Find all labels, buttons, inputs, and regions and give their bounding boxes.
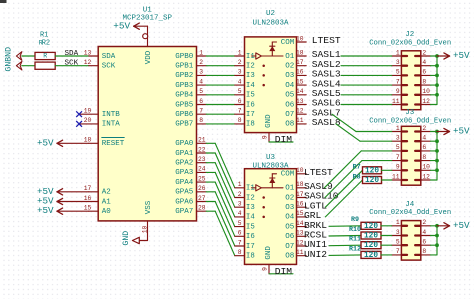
svg-text:7: 7 <box>238 107 242 114</box>
svg-text:16: 16 <box>84 195 92 202</box>
U3 pin 15 (O4) <box>285 210 306 222</box>
wire GNBND to R2 <box>22 65 35 67</box>
U1 pin 10 (VSS) <box>141 200 153 240</box>
svg-text:I7: I7 <box>246 111 255 119</box>
svg-text:O8: O8 <box>285 252 294 260</box>
svg-text:A1: A1 <box>102 198 112 206</box>
svg-text:GPB0: GPB0 <box>175 53 194 61</box>
U2 pin 9 (GND) <box>261 114 273 142</box>
svg-text:4: 4 <box>422 229 426 236</box>
J3 pin 11 <box>392 173 407 180</box>
U1 pin 22 (GPA1) <box>175 146 206 158</box>
J2 pin 10 <box>415 88 430 95</box>
junction at J3 rail y=141 <box>435 139 439 143</box>
J2 pin 4 <box>415 59 430 66</box>
svg-text:120: 120 <box>365 167 379 175</box>
wire GPB6 to U2 I7 <box>206 113 235 115</box>
svg-text:O4: O4 <box>285 214 295 222</box>
svg-text:O6: O6 <box>285 233 295 241</box>
svg-text:9: 9 <box>396 164 400 171</box>
wire GPB2 to U2 I3 <box>206 74 235 76</box>
svg-text:10: 10 <box>141 226 148 234</box>
J3 pin 7 <box>392 154 407 161</box>
wires J3 even pins to +5V rail <box>431 132 438 181</box>
svg-text:U2: U2 <box>266 10 275 18</box>
svg-text:6: 6 <box>422 69 426 76</box>
transistor-array U2 body (ULN2803A) <box>245 10 297 133</box>
svg-text:VDD: VDD <box>145 50 153 64</box>
U3 pin 5 (I5) <box>235 220 255 231</box>
wire BRKL to resistor R9 <box>329 225 361 228</box>
U3 internal driver drawing <box>252 174 284 218</box>
J2 pin 9 <box>392 88 407 95</box>
junction at J2 rail y=85 <box>435 83 439 87</box>
svg-text:R8: R8 <box>353 173 361 181</box>
svg-text:2: 2 <box>422 49 426 56</box>
power +5V at U1 RESET <box>37 137 89 148</box>
svg-text:11: 11 <box>296 249 304 256</box>
svg-text:9: 9 <box>396 88 400 95</box>
svg-text:6: 6 <box>238 230 242 237</box>
svg-text:GPA0: GPA0 <box>175 140 194 148</box>
svg-text:15: 15 <box>84 204 92 211</box>
U1 pin 13 (SDA) <box>84 49 116 61</box>
U2 pin 3 (I3) <box>235 69 255 80</box>
wire GPB5 to U2 I6 <box>206 104 235 106</box>
power +5V at U1 A2 <box>37 186 89 197</box>
U1 pin 24 (GPA3) <box>175 166 206 178</box>
svg-text:O5: O5 <box>285 92 295 100</box>
U1 pin 2 (GPB1) <box>175 59 206 71</box>
svg-text:3: 3 <box>238 200 242 207</box>
wire LGTL to resistor R7 <box>325 170 362 207</box>
svg-text:7: 7 <box>238 239 242 246</box>
svg-text:4: 4 <box>238 210 242 217</box>
J3 pin 3 <box>392 134 407 141</box>
svg-text:GPB3: GPB3 <box>175 82 194 90</box>
svg-text:I3: I3 <box>246 204 255 212</box>
wire GPB3 to U2 I4 <box>206 84 235 86</box>
svg-text:15: 15 <box>296 210 304 217</box>
U2 pin 11 (O8) <box>285 117 306 129</box>
junction at J4 rail y=245 <box>435 243 439 247</box>
wire SASL10 to J3 pin 7 <box>325 161 392 198</box>
wire GPA2 to U3 I3 <box>206 163 235 208</box>
svg-text:3: 3 <box>396 59 400 66</box>
U2 pin 7 (I7) <box>235 107 255 118</box>
svg-text:7: 7 <box>396 78 400 85</box>
svg-text:5: 5 <box>238 88 242 95</box>
U2 pin 6 (I6) <box>235 98 255 109</box>
svg-text:120: 120 <box>364 242 378 250</box>
J4 pin 6 <box>415 238 430 245</box>
svg-text:10: 10 <box>422 164 430 171</box>
U2 pin 16 (O3) <box>285 69 306 81</box>
svg-text:5: 5 <box>199 88 203 95</box>
svg-text:12: 12 <box>422 98 430 105</box>
svg-text:J3: J3 <box>405 109 415 117</box>
U2 pin 4 (I4) <box>235 78 256 89</box>
svg-text:R11: R11 <box>349 236 361 244</box>
svg-text:R10: R10 <box>349 226 361 234</box>
junction at J2 rail y=66 <box>435 64 439 68</box>
wire UNI2 to resistor R12 <box>329 254 361 257</box>
wire R9 to J4 pin 1 <box>381 225 392 227</box>
J2 pin 11 <box>392 98 407 105</box>
J2 pin 8 <box>415 78 430 85</box>
J2 pin 3 <box>392 59 407 66</box>
svg-text:21: 21 <box>198 137 206 144</box>
wire SASL5 to J2 pin 9 <box>341 94 392 96</box>
svg-text:GPB6: GPB6 <box>175 111 194 119</box>
svg-text:J2: J2 <box>405 31 414 39</box>
svg-text:DIM: DIM <box>275 266 293 277</box>
svg-text:INTA: INTA <box>102 121 121 129</box>
svg-text:+5V: +5V <box>113 20 130 31</box>
resistor R11 (120) <box>349 236 381 251</box>
svg-text:O5: O5 <box>285 223 295 231</box>
op-amp U1 body (MCP23017_SP) <box>98 7 196 221</box>
junction at J4 rail y=236 <box>435 234 439 238</box>
junction at J3 +5V rail top <box>435 130 439 134</box>
wire U2 GND to DIM label <box>269 141 293 143</box>
U2 pin 13 (O6) <box>285 98 306 110</box>
J2 pin 2 <box>415 49 430 56</box>
wire GPB4 to U2 I5 <box>206 94 235 96</box>
U1 pin 4 (GPB3) <box>175 78 206 90</box>
svg-text:U1: U1 <box>143 7 153 15</box>
wire R8 to J3 pin 11 <box>382 179 392 181</box>
svg-text:2: 2 <box>422 125 426 132</box>
U1 pin 8 (GPB7) <box>175 117 206 129</box>
svg-text:COM: COM <box>281 171 295 179</box>
U3 pin 1 (I1) <box>235 181 256 192</box>
connector J4 body (Conn_02x04_Odd_Even) <box>369 201 451 260</box>
U1 pin 25 (GPA4) <box>175 175 206 187</box>
svg-text:13: 13 <box>296 230 304 237</box>
resistor R1 <box>35 32 55 60</box>
svg-text:7: 7 <box>396 154 400 161</box>
J2 pin 7 <box>392 78 407 85</box>
svg-text:GPB1: GPB1 <box>175 62 194 70</box>
J4 pin 4 <box>415 229 430 236</box>
J4 pin 2 <box>415 219 430 226</box>
svg-text:O3: O3 <box>285 204 295 212</box>
svg-text:O2: O2 <box>285 62 294 70</box>
svg-text:26: 26 <box>198 185 206 192</box>
wire R11 to J4 pin 5 <box>381 244 392 246</box>
svg-text:11: 11 <box>296 117 304 124</box>
J4 pin 1 <box>392 219 407 226</box>
wire SASL7 to J3 pin 1 <box>332 114 392 131</box>
svg-text:4: 4 <box>422 134 426 141</box>
power +5V at U1 A1 <box>37 196 89 207</box>
svg-text:13: 13 <box>296 98 304 105</box>
svg-text:SDA: SDA <box>64 50 78 58</box>
wire GPA5 to U3 I6 <box>206 192 235 237</box>
no-connect X on U1 pin 19 <box>76 111 82 117</box>
svg-text:9: 9 <box>261 267 268 271</box>
hierarchical label arrow (SDA net) <box>16 52 22 61</box>
svg-text:5: 5 <box>396 144 400 151</box>
U1 pin 3 (GPB2) <box>175 69 206 81</box>
U3 pin 8 (I8) <box>235 249 255 260</box>
U1 pin 19 (INTB) <box>79 107 120 119</box>
J4 pin 7 <box>392 248 407 255</box>
resistor R9 (120) <box>351 216 381 231</box>
power GND at U1 VSS <box>122 231 148 246</box>
wire SASL9 to J3 pin 5 <box>324 151 391 188</box>
svg-text:LTEST: LTEST <box>312 35 341 46</box>
svg-text:10: 10 <box>296 167 304 174</box>
U1 pin 28 (GPA7) <box>175 204 206 216</box>
svg-text:GPA7: GPA7 <box>175 208 193 216</box>
svg-text:5: 5 <box>396 238 400 245</box>
U3 pin 10 (COM) <box>281 167 306 179</box>
svg-text:5: 5 <box>238 220 242 227</box>
svg-text:3: 3 <box>199 69 203 76</box>
svg-text:O1: O1 <box>285 53 295 61</box>
U3 pin 11 (O8) <box>285 249 306 261</box>
U2 pin 17 (O2) <box>285 59 306 71</box>
svg-text:2: 2 <box>238 59 242 66</box>
svg-text:8: 8 <box>199 117 203 124</box>
J3 pin 10 <box>415 164 430 171</box>
svg-text:I1: I1 <box>246 53 255 61</box>
wire GPB7 to U2 I8 <box>206 123 235 125</box>
U3 pin 17 (O2) <box>285 191 306 203</box>
svg-text:GPB7: GPB7 <box>175 121 193 129</box>
svg-text:2: 2 <box>422 219 426 226</box>
wires J4 even pins to +5V rail <box>431 226 438 255</box>
svg-text:GPA4: GPA4 <box>175 179 194 187</box>
svg-text:UNI2: UNI2 <box>304 249 327 260</box>
U1 pin 17 (A2) <box>84 185 111 197</box>
U2 pin 15 (O4) <box>285 78 306 90</box>
svg-text:I4: I4 <box>246 214 255 222</box>
svg-text:13: 13 <box>84 49 92 56</box>
svg-text:U3: U3 <box>266 154 276 162</box>
wire GPA4 to U3 I5 <box>206 182 235 227</box>
U3 pin 3 (I3) <box>235 200 255 211</box>
power +5V at J4 <box>437 220 470 231</box>
svg-text:18: 18 <box>84 137 92 144</box>
power +5V at J2 <box>437 50 470 61</box>
svg-text:6: 6 <box>422 144 426 151</box>
svg-text:GPB2: GPB2 <box>175 72 193 80</box>
svg-text:R7: R7 <box>353 164 361 172</box>
svg-text:17: 17 <box>84 185 92 192</box>
svg-text:28: 28 <box>198 204 206 211</box>
svg-text:SCK: SCK <box>102 62 116 70</box>
svg-text:RESET: RESET <box>102 140 125 148</box>
wire RCSL to resistor R10 <box>329 235 361 238</box>
J2 pin 6 <box>415 69 430 76</box>
wire R10 to J4 pin 3 <box>381 235 392 237</box>
U3 pin 14 (O5) <box>285 220 306 232</box>
svg-text:24: 24 <box>198 166 206 173</box>
wire SASL3 to J2 pin 5 <box>341 74 392 76</box>
U2 pin 5 (I5) <box>235 88 255 99</box>
svg-text:1: 1 <box>396 49 400 56</box>
svg-text:ULN2803A: ULN2803A <box>252 162 289 170</box>
J3 pin 2 <box>415 125 430 132</box>
svg-text:R12: R12 <box>349 245 361 253</box>
svg-text:6: 6 <box>199 98 203 105</box>
svg-text:120: 120 <box>365 177 379 185</box>
svg-text:I6: I6 <box>246 233 255 241</box>
U1 pin 15 (A0) <box>84 204 111 216</box>
svg-text:16: 16 <box>296 69 304 76</box>
U2 pin 14 (O5) <box>285 88 306 100</box>
J3 pin 1 <box>392 125 407 132</box>
wire SASL8 to J3 pin 3 <box>336 124 392 141</box>
J3 pin 4 <box>415 134 430 141</box>
svg-text:I3: I3 <box>246 72 255 80</box>
svg-text:GPB5: GPB5 <box>175 101 194 109</box>
svg-text:I4: I4 <box>246 82 255 90</box>
J3 pin 12 <box>415 173 430 180</box>
U2 internal driver drawing <box>252 42 284 86</box>
svg-text:SASL8: SASL8 <box>312 117 341 128</box>
svg-text:O1: O1 <box>285 185 295 193</box>
wire GPA6 to U3 I7 <box>206 202 235 247</box>
U1 pin 12 (SCK) <box>84 59 116 71</box>
svg-text:R9: R9 <box>351 216 359 224</box>
wire R2 to U1 SCK <box>55 65 89 67</box>
transistor-array U3 body (ULN2803A) <box>245 154 297 265</box>
svg-text:11: 11 <box>392 98 400 105</box>
svg-text:GNBND: GNBND <box>4 47 13 72</box>
svg-text:6: 6 <box>238 98 242 105</box>
U2 pin 8 (I8) <box>235 117 255 128</box>
svg-text:1: 1 <box>238 49 242 56</box>
U1 pin 20 (INTA) <box>79 117 120 129</box>
svg-text:GND: GND <box>265 114 273 128</box>
U1 pin 27 (GPA6) <box>175 195 206 207</box>
U3 pin 16 (O3) <box>285 200 306 212</box>
svg-text:I2: I2 <box>246 62 255 70</box>
svg-text:GPA1: GPA1 <box>175 150 194 158</box>
wire R7 to J3 pin 9 <box>382 169 392 171</box>
U1 pin 1 (GPB0) <box>175 49 206 61</box>
svg-text:18: 18 <box>296 181 304 188</box>
svg-text:8: 8 <box>422 78 426 85</box>
U1 pin 16 (A1) <box>84 195 111 207</box>
svg-text:8: 8 <box>238 249 242 256</box>
svg-text:GPB4: GPB4 <box>175 92 194 100</box>
resistor R12 (120) <box>349 245 381 260</box>
J2 pin 1 <box>392 49 407 56</box>
junction at J3 rail y=170 <box>435 168 439 172</box>
svg-text:GPA6: GPA6 <box>175 198 194 206</box>
U1 pin 7 (GPB6) <box>175 107 206 119</box>
svg-text:GPA3: GPA3 <box>175 169 194 177</box>
wire GPA7 to U3 I8 <box>206 211 235 256</box>
U3 pin 6 (I6) <box>235 230 255 241</box>
svg-text:R: R <box>43 53 47 60</box>
U3 pin 12 (O7) <box>285 239 306 251</box>
svg-text:INTB: INTB <box>102 111 121 119</box>
svg-text:R1: R1 <box>40 32 48 40</box>
J4 pin 8 <box>415 248 430 255</box>
svg-text:22: 22 <box>198 146 206 153</box>
svg-text:I6: I6 <box>246 101 255 109</box>
svg-text:3: 3 <box>238 69 242 76</box>
svg-text:I1: I1 <box>246 185 255 193</box>
svg-text:3: 3 <box>396 134 400 141</box>
svg-text:12: 12 <box>296 107 304 114</box>
svg-text:O8: O8 <box>285 121 294 129</box>
wire SASL2 to J2 pin 3 <box>341 65 392 67</box>
U3 pin 2 (I2) <box>235 191 255 202</box>
junction at J2 +5V rail top <box>435 54 439 58</box>
svg-text:1: 1 <box>199 49 203 56</box>
svg-text:I8: I8 <box>246 252 255 260</box>
svg-text:1: 1 <box>238 181 242 188</box>
wire GPA1 to U3 I2 <box>206 153 235 198</box>
svg-text:10: 10 <box>296 35 304 42</box>
svg-text:O3: O3 <box>285 72 295 80</box>
svg-text:2: 2 <box>199 59 203 66</box>
svg-text:11: 11 <box>392 173 400 180</box>
svg-text:1: 1 <box>396 219 400 226</box>
svg-text:14: 14 <box>296 88 304 95</box>
svg-text:1: 1 <box>396 125 400 132</box>
svg-text:14: 14 <box>296 220 304 227</box>
svg-text:I2: I2 <box>246 194 255 202</box>
junction at J3 rail y=161 <box>435 159 439 163</box>
svg-text:Conn_02x04_Odd_Even: Conn_02x04_Odd_Even <box>369 209 451 217</box>
wire GPB0 to U2 I1 <box>206 55 235 57</box>
svg-text:17: 17 <box>296 191 304 198</box>
U1 pin 26 (GPA5) <box>175 185 206 197</box>
U1 pin 6 (GPB5) <box>175 98 206 110</box>
svg-text:J4: J4 <box>405 201 415 209</box>
svg-text:4: 4 <box>199 78 203 85</box>
wire SASL4 to J2 pin 7 <box>341 84 392 86</box>
wire R1 to U1 SDA <box>55 55 89 57</box>
svg-text:6: 6 <box>422 238 426 245</box>
svg-text:4: 4 <box>422 59 426 66</box>
U3 pin 9 (GND) <box>261 246 273 274</box>
svg-text:+5V: +5V <box>37 205 54 216</box>
hierarchical label arrow (SCK net) <box>16 61 22 70</box>
svg-text:4: 4 <box>238 78 242 85</box>
svg-text:120: 120 <box>364 252 378 260</box>
U2 pin 2 (I2) <box>235 59 255 70</box>
power +5V at J3 <box>437 126 470 137</box>
wire SASL6 to J2 pin 11 <box>341 104 392 106</box>
wire GRL to resistor R8 <box>325 180 362 217</box>
svg-text:VSS: VSS <box>145 200 153 214</box>
resistor R2 <box>35 40 55 70</box>
connector J2 body (Conn_02x06_Odd_Even) <box>369 31 451 110</box>
svg-text:7: 7 <box>199 107 203 114</box>
wire R12 to J4 pin 7 <box>381 254 392 256</box>
svg-text:R2: R2 <box>42 40 50 48</box>
svg-text:5: 5 <box>396 69 400 76</box>
svg-text:2: 2 <box>238 191 242 198</box>
J3 pin 5 <box>392 144 407 151</box>
svg-text:O7: O7 <box>285 243 294 251</box>
svg-text:Conn_02x06_Odd_Even: Conn_02x06_Odd_Even <box>369 117 451 125</box>
J4 pin 3 <box>392 229 407 236</box>
svg-text:I8: I8 <box>246 121 255 129</box>
svg-text:16: 16 <box>296 200 304 207</box>
J3 pin 8 <box>415 154 430 161</box>
junction at J4 +5V rail top <box>435 224 439 228</box>
